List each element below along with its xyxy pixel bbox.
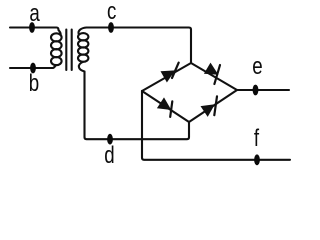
wire secondary bottom to node d [85,72,190,140]
diode D2 (top-to-right arm) [204,63,219,75]
svg-text:b: b [29,70,39,97]
node c dot [108,22,114,33]
wire b (left bottom lead) [10,67,53,69]
diode D1 (left-to-top arm) [161,70,176,82]
svg-text:d: d [104,142,114,169]
transformer T1 secondary winding [79,28,87,35]
diode D3 cathode bar [170,101,172,117]
transformer T1 primary winding [59,30,61,35]
diode D3 (left-to-bottom arm) [157,97,171,110]
node f dot [254,154,260,165]
wire e (right output lead) [237,89,289,91]
wire left vertex down to f line [142,91,290,160]
bridge edge left-bottom [142,91,189,122]
bridge edge top-right [191,63,237,90]
diode D2 cathode bar [214,65,220,84]
wire c (secondary top to bridge top) [87,28,192,64]
node d dot [107,134,113,145]
transformer T1 core [65,30,67,71]
bridge edge left-top [142,63,191,91]
diode D4 cathode bar [214,96,217,115]
diode D4 (bottom-to-right arm) [201,104,215,117]
node a dot [29,22,35,33]
bridge edge bottom-right [189,90,237,122]
node b dot [30,63,36,74]
diode D1 cathode bar [172,63,179,78]
svg-text:e: e [252,53,262,80]
svg-text:c: c [107,0,117,25]
wire a (left top lead) [10,28,59,31]
node e dot [253,85,259,96]
svg-text:f: f [254,125,260,152]
svg-text:a: a [29,0,39,26]
